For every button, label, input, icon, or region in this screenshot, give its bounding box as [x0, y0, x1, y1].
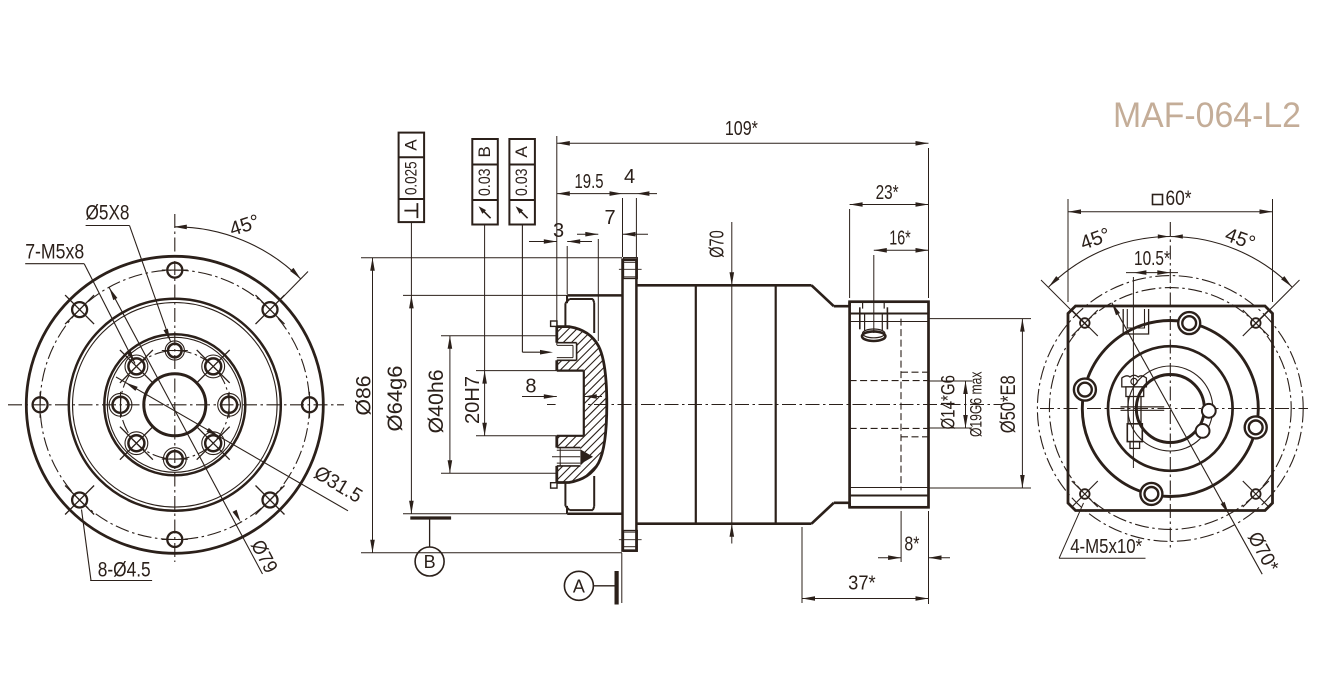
- through hole 4 on dia50 circle: [1074, 379, 1096, 401]
- clamp screw nut: [1127, 424, 1142, 442]
- svg-text:Ø40h6: Ø40h6: [425, 369, 448, 433]
- svg-text:16*: 16*: [889, 228, 911, 250]
- svg-text:8-Ø4.5: 8-Ø4.5: [98, 559, 151, 582]
- face rim notch bottom: [551, 483, 557, 488]
- left view vertical centerline: [174, 214, 176, 562]
- centre bore 20H7 section: [557, 370, 584, 372]
- inner tapped hole 8 (7-M5x8 / pin dia5): [128, 358, 144, 374]
- datum A symbol: [621, 553, 623, 603]
- 45 deg dimension arc (left view): [175, 227, 301, 279]
- through hole 1 on dia50 circle: [1178, 312, 1200, 334]
- svg-text:4-M5x10*: 4-M5x10*: [1070, 536, 1142, 558]
- GD&T frame runout 0.03 B: [472, 139, 498, 225]
- svg-text:8*: 8*: [904, 534, 919, 556]
- dia 31.5 diameter line with arrows: [116, 377, 348, 511]
- corner hole 4 (4-M5x10): [1080, 489, 1090, 499]
- 45deg dimension arcs: [1049, 237, 1171, 287]
- dimension dia86: [361, 257, 622, 259]
- tapped hole M5x8 section (bottom): [557, 447, 581, 449]
- bearing hub (bottom): [566, 506, 568, 514]
- bearing housing circle: [1108, 346, 1233, 471]
- input housing block: [850, 302, 929, 508]
- clamp screw axis line: [1132, 277, 1134, 468]
- GD&T frame perpendicularity 0.025 A: [399, 133, 425, 223]
- inner step circle: [1128, 366, 1213, 451]
- svg-text:Ø70: Ø70: [707, 230, 729, 258]
- dia 79 diameter line with arrows: [109, 287, 263, 574]
- svg-text:Ø14*G6: Ø14*G6: [939, 375, 960, 430]
- flange tab / bolt hole section top: [624, 258, 638, 279]
- corner hole 2 (4-M5x10): [1251, 318, 1261, 328]
- left view boss circle dia 40: [104, 334, 245, 475]
- outer mounting hole 8 (8-dia4.5): [263, 302, 278, 317]
- svg-text:7: 7: [604, 207, 615, 229]
- 45 deg radial extension line: [281, 272, 308, 300]
- upper screwdriver slot: [1123, 309, 1148, 334]
- svg-text:37*: 37*: [848, 573, 876, 595]
- pin hole dia5x8 section (top): [557, 342, 577, 344]
- svg-text:Ø86: Ø86: [352, 376, 375, 416]
- svg-text:23*: 23*: [876, 182, 899, 204]
- svg-text:A: A: [401, 139, 420, 151]
- svg-text:109*: 109*: [725, 118, 758, 140]
- corner 45deg extension lines: [1041, 280, 1089, 328]
- outer mounting hole 4 (8-dia4.5): [72, 493, 87, 508]
- extension lines top: [556, 136, 558, 345]
- through hole 2 on dia50 circle: [1245, 416, 1267, 438]
- clamp screw head: [1122, 375, 1147, 387]
- svg-text:45°: 45°: [227, 211, 263, 241]
- corner hole 3 (4-M5x10): [1251, 489, 1261, 499]
- svg-text:8: 8: [525, 376, 536, 398]
- svg-text:3: 3: [553, 220, 564, 242]
- svg-text:B: B: [424, 552, 436, 572]
- outer mounting hole 5 (8-dia4.5): [33, 397, 48, 412]
- pilot recess dia50*E8 circle: [1082, 321, 1258, 497]
- middle view horizontal centerline: [547, 404, 1002, 406]
- svg-text:Ø50*E8: Ø50*E8: [997, 375, 1020, 433]
- frame 3 leader to pin hole face: [521, 225, 523, 353]
- dimension dia64g6 merged with frame1 leader: [403, 294, 567, 296]
- left view bolt circle dia 79 (dash-dot): [40, 270, 309, 539]
- mounting flange plate dia86: [623, 260, 637, 551]
- right view horizontal centerline: [1040, 408, 1308, 410]
- svg-text:60*: 60*: [1166, 187, 1192, 210]
- square flange 60 with chamfered corners: [1068, 306, 1273, 511]
- inner tapped hole 1 (7-M5x8 / pin dia5): [168, 344, 182, 358]
- outer mounting hole 1 (8-dia4.5): [302, 397, 317, 412]
- outer mounting hole 2 (8-dia4.5): [263, 493, 278, 508]
- svg-text:19.5: 19.5: [575, 171, 604, 193]
- dimension 20H7 merged with frame2 leader: [476, 370, 557, 372]
- left view centre bore 20H7: [144, 374, 206, 436]
- flange tab / bolt hole section bottom: [624, 531, 638, 552]
- svg-text:10.5*: 10.5*: [1134, 248, 1170, 270]
- through hole 3 on dia50 circle: [1140, 483, 1162, 505]
- bolt circle dia70* (dash-dot): [1049, 288, 1291, 530]
- svg-text:Ø70*: Ø70*: [1243, 528, 1283, 576]
- pilot dia64 spigot edges: [567, 294, 622, 297]
- inner tapped hole 4 (7-M5x8 / pin dia5): [205, 435, 221, 451]
- svg-text:0.025: 0.025: [401, 161, 420, 195]
- svg-text:Ø31.5: Ø31.5: [310, 462, 366, 508]
- left view horizontal centerline: [8, 404, 344, 406]
- gearbox body dia70: [636, 284, 811, 287]
- outer mounting hole 3 (8-dia4.5): [167, 532, 182, 547]
- svg-text:20H7: 20H7: [462, 376, 484, 424]
- corner hole 1 (4-M5x10): [1080, 318, 1090, 328]
- output dome outline: [557, 327, 607, 483]
- face rim notch top: [551, 321, 557, 326]
- hidden counterbore dia19: [901, 371, 929, 373]
- dia70* diameter line with arrows: [1112, 303, 1263, 575]
- svg-text:Ø64g6: Ø64g6: [384, 366, 407, 432]
- inner tapped hole 6 (7-M5x8 / pin dia5): [128, 435, 144, 451]
- svg-text:A: A: [512, 145, 531, 157]
- dimension square 60*: [1153, 195, 1163, 205]
- dimension dia40h6: [441, 335, 557, 337]
- datum B symbol: [410, 516, 451, 519]
- clamp screw shank: [1127, 397, 1129, 424]
- bearing hub (top): [566, 295, 568, 303]
- outer mounting hole 7 (8-dia4.5): [167, 263, 182, 278]
- svg-text:B: B: [475, 146, 494, 157]
- inner tapped hole 5 (7-M5x8 / pin dia5): [167, 451, 183, 467]
- hidden input bore dia14: [850, 380, 929, 382]
- left view flange outer circle dia 86: [26, 256, 323, 553]
- GD&T frame runout 0.03 A: [509, 139, 535, 225]
- svg-text:45°: 45°: [1077, 224, 1113, 255]
- motor reference circle (dash-dot): [1037, 276, 1303, 542]
- balance holes: [1202, 404, 1216, 418]
- body internal joints: [695, 285, 697, 523]
- svg-text:0.03: 0.03: [512, 168, 531, 196]
- left view pilot circle dia 64: [69, 299, 281, 511]
- svg-text:Ø5X8: Ø5X8: [86, 202, 130, 225]
- input bore circle: [1136, 375, 1204, 443]
- svg-text:0.03: 0.03: [475, 168, 494, 196]
- svg-text:7-M5x8: 7-M5x8: [25, 241, 84, 264]
- inner tapped hole 2 (7-M5x8 / pin dia5): [205, 358, 221, 374]
- svg-text:MAF-064-L2: MAF-064-L2: [1113, 96, 1301, 135]
- clamp screw access slot: [862, 302, 864, 309]
- svg-text:45°: 45°: [1222, 224, 1258, 255]
- right view vertical centerline: [1169, 222, 1171, 548]
- collar split slit: [1121, 406, 1165, 408]
- inner tapped hole 7 (7-M5x8 / pin dia5): [113, 397, 129, 413]
- left view inner bolt circle dia 31.5 (dash-dot): [121, 351, 230, 460]
- inner tapped hole 3 (7-M5x8 / pin dia5): [221, 397, 237, 413]
- svg-text:Ø19G6 max: Ø19G6 max: [967, 371, 986, 437]
- dimension dia50*E8: [929, 318, 1032, 320]
- svg-text:A: A: [573, 576, 585, 596]
- svg-text:Ø79: Ø79: [246, 537, 281, 577]
- svg-text:4: 4: [624, 166, 635, 188]
- outer mounting hole 6 (8-dia4.5): [72, 302, 87, 317]
- dimension dia14*G6: [929, 380, 973, 382]
